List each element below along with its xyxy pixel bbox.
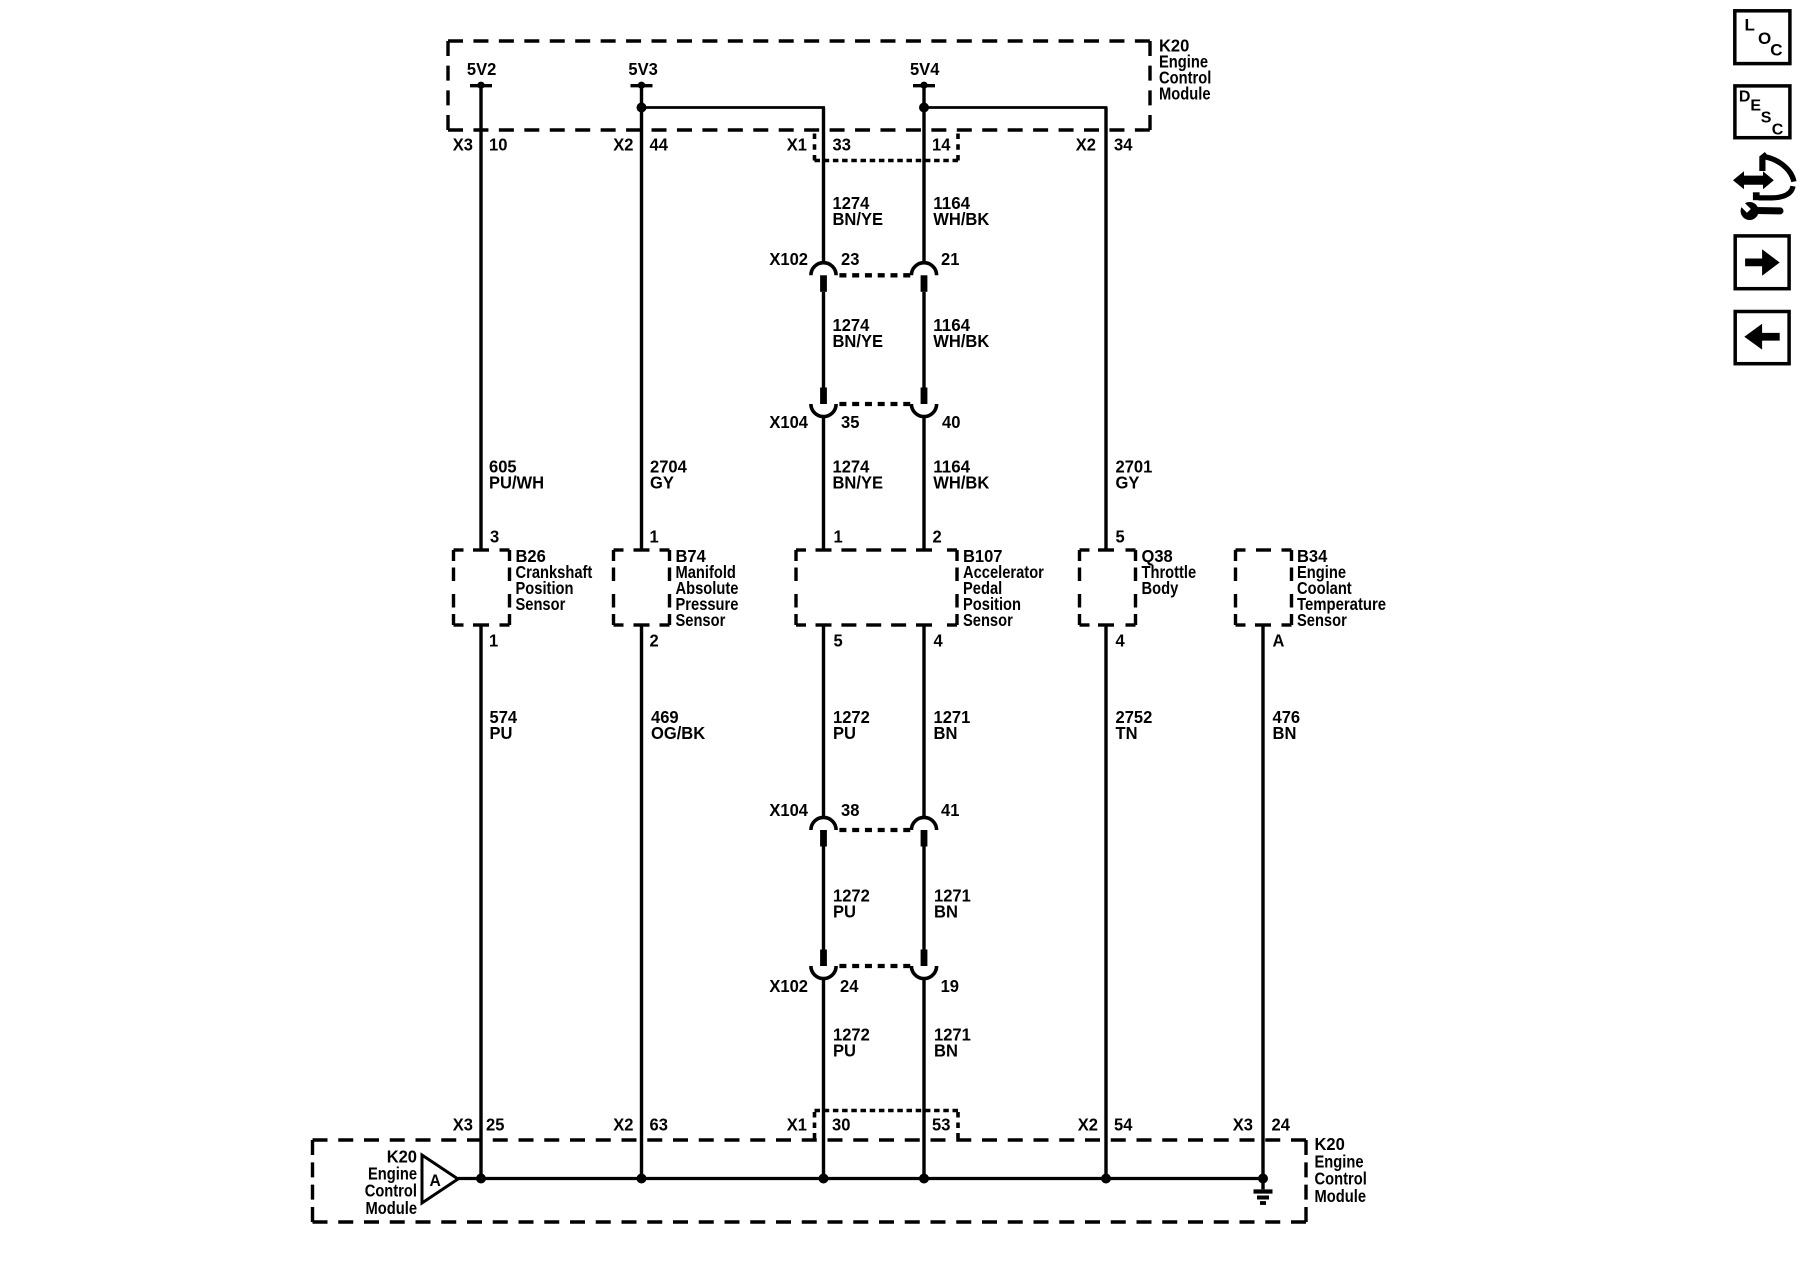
label: circuit 1164 WH/BK (upper) xyxy=(933,193,989,229)
svg-text:Sensor: Sensor xyxy=(676,610,726,630)
wire: circuit 1271 between connectors xyxy=(922,847,925,950)
icon button: LOC xyxy=(1735,11,1790,64)
svg-text:X1: X1 xyxy=(787,1115,808,1135)
svg-text:PU: PU xyxy=(833,1040,856,1060)
svg-text:5V3: 5V3 xyxy=(628,59,658,79)
wire: circuit 2752 TN from Q38 pin 4 to ECM X2-54 xyxy=(1104,625,1107,1179)
pin: Q38 pin 4 xyxy=(1116,631,1126,651)
svg-text:Sensor: Sensor xyxy=(516,594,566,614)
wire: circuit 574 PU from B26 pin 1 to ECM X3-25 xyxy=(479,625,482,1179)
wire: circuit 1164 to B107 pin 2 xyxy=(922,417,925,550)
svg-text:63: 63 xyxy=(650,1115,669,1135)
svg-text:BN/YE: BN/YE xyxy=(833,473,884,493)
svg-text:Sensor: Sensor xyxy=(963,610,1013,630)
junction: bus at X1-30 xyxy=(819,1174,829,1184)
connector X104 mating indication lower (dashed) xyxy=(839,828,910,832)
icon: vehicle with double arrow and wrench xyxy=(1733,154,1797,220)
wire: 5V3 branch to ECM pin X1-33 (circuit 1274) xyxy=(642,108,824,263)
ground bus wire inside ECM xyxy=(458,1177,1263,1180)
inline connector X102 pin 24 xyxy=(811,950,836,979)
svg-text:O: O xyxy=(1758,29,1771,48)
sensor B107 Accelerator Pedal Position Sensor (dashed box) xyxy=(796,550,957,625)
label: circuit 1272 PU (upper) xyxy=(833,707,870,743)
svg-text:54: 54 xyxy=(1114,1115,1133,1135)
pin: ECM X3-25 xyxy=(453,1115,505,1135)
svg-text:5: 5 xyxy=(1116,527,1126,547)
label: circuit 1164 WH/BK (between X102 and X104) xyxy=(933,315,989,351)
icon button: back (left arrow) xyxy=(1735,312,1789,364)
svg-text:PU: PU xyxy=(833,723,856,743)
label: circuit 1271 BN (upper) xyxy=(934,707,971,743)
pin: ECM X1-14 xyxy=(932,135,951,155)
label: circuit 1274 BN/YE (between X102 and X104) xyxy=(833,315,884,351)
svg-text:1: 1 xyxy=(834,527,844,547)
pin: ECM X2-34 xyxy=(1076,135,1133,155)
pin: ECM X1-30 xyxy=(787,1115,851,1135)
junction: bus at X3-24 xyxy=(1258,1174,1268,1184)
icon button: next (right arrow) xyxy=(1735,236,1789,289)
svg-text:WH/BK: WH/BK xyxy=(933,209,989,229)
svg-text:A: A xyxy=(1273,631,1285,651)
svg-text:X102: X102 xyxy=(769,249,808,269)
inline connector X102 pin 23 xyxy=(811,263,836,292)
svg-text:30: 30 xyxy=(832,1115,850,1135)
label: K20 Engine Control Module (right of bottom box) xyxy=(1315,1134,1367,1206)
label: B26 Crankshaft Position Sensor xyxy=(516,546,593,614)
label: connector X102 pins 24 / 19 (lower) xyxy=(769,976,959,996)
label: circuit 1271 BN (middle) xyxy=(934,886,971,922)
label: K20 Engine Control Module (top right of top box) xyxy=(1159,36,1211,104)
label: B74 Manifold Absolute Pressure Sensor xyxy=(676,546,739,630)
connector X102 mating indication lower (dashed) xyxy=(839,964,910,968)
wire: circuit 1274 to B107 pin 1 xyxy=(822,417,825,550)
label: circuit 476 BN xyxy=(1273,707,1301,743)
pin: B107 pin 5 xyxy=(834,631,844,651)
wire: circuit 1271 to ECM X1-53 xyxy=(922,979,925,1179)
label: K20 Engine Control Module (inside bottom box) xyxy=(365,1146,418,1218)
svg-text:38: 38 xyxy=(841,800,860,820)
wire: circuit 476 BN from B34 pin A to ECM X3-24 xyxy=(1261,625,1264,1179)
pin: B26 pin 3 xyxy=(490,527,500,547)
label: circuit 1272 PU (lower) xyxy=(833,1024,870,1060)
svg-text:3: 3 xyxy=(490,527,500,547)
junction: bus at X2-63 xyxy=(637,1174,647,1184)
svg-text:40: 40 xyxy=(942,412,960,432)
svg-text:C: C xyxy=(1770,41,1782,60)
svg-text:OG/BK: OG/BK xyxy=(651,723,706,743)
svg-text:5: 5 xyxy=(834,631,844,651)
svg-text:BN: BN xyxy=(934,902,958,922)
svg-text:BN: BN xyxy=(1273,723,1297,743)
wire: 5V4 from terminal down (circuit 1164 WH/BK) xyxy=(922,88,925,263)
svg-text:X1: X1 xyxy=(787,135,808,155)
inline connector X104 pin 35 xyxy=(811,388,836,417)
node 5V4: voltage reference terminal xyxy=(910,59,940,89)
wire: circuit 1164 between connectors xyxy=(922,292,925,388)
label: B107 Accelerator Pedal Position Sensor xyxy=(963,546,1044,630)
svg-text:Module: Module xyxy=(1315,1186,1367,1206)
sensor B34 Engine Coolant Temperature Sensor (dashed box) xyxy=(1236,550,1292,625)
svg-text:BN/YE: BN/YE xyxy=(833,209,884,229)
svg-text:GY: GY xyxy=(650,473,674,493)
svg-text:5V4: 5V4 xyxy=(910,59,940,79)
label: circuit 469 OG/BK xyxy=(651,707,706,743)
icon button: DESC xyxy=(1735,86,1790,139)
svg-text:35: 35 xyxy=(841,412,860,432)
svg-text:Module: Module xyxy=(366,1198,418,1218)
label: circuit 1272 PU (middle) xyxy=(833,886,870,922)
svg-text:WH/BK: WH/BK xyxy=(933,331,989,351)
svg-text:1: 1 xyxy=(489,631,499,651)
wire: circuit 1272 to ECM X1-30 xyxy=(822,979,825,1179)
svg-text:Body: Body xyxy=(1142,578,1179,598)
svg-text:21: 21 xyxy=(941,249,960,269)
svg-text:24: 24 xyxy=(840,976,859,996)
pin: ECM X2-54 xyxy=(1078,1115,1133,1135)
svg-text:33: 33 xyxy=(833,135,852,155)
svg-text:23: 23 xyxy=(841,249,860,269)
connector X102 mating indication (dashed) xyxy=(839,273,910,277)
svg-text:Sensor: Sensor xyxy=(1297,610,1347,630)
inline connector X104 pin 41 xyxy=(911,817,936,846)
svg-text:4: 4 xyxy=(1116,631,1126,651)
pin: B74 pin 1 xyxy=(650,527,660,547)
svg-text:10: 10 xyxy=(489,135,507,155)
node 5V3: voltage reference terminal xyxy=(628,59,658,89)
svg-text:L: L xyxy=(1745,16,1755,35)
wire: circuit 1274 between connectors xyxy=(822,292,825,388)
inline connector X104 pin 38 xyxy=(811,817,836,846)
svg-text:E: E xyxy=(1750,98,1761,115)
svg-text:TN: TN xyxy=(1116,723,1138,743)
label: circuit 1271 BN (lower) xyxy=(934,1024,971,1060)
svg-text:Module: Module xyxy=(1159,84,1211,104)
wire: 5V2 from terminal to B26 pin 3 (circuit 605 PU/WH) xyxy=(479,88,482,551)
pin: ECM X1-33 xyxy=(787,135,851,155)
svg-text:X2: X2 xyxy=(1078,1115,1098,1135)
label: circuit 1164 WH/BK (lower) xyxy=(933,457,989,493)
pin: B107 pin 4 xyxy=(934,631,944,651)
label: circuit 2704 GY xyxy=(650,457,687,493)
svg-text:34: 34 xyxy=(1114,135,1133,155)
wire: circuit 1272 between connectors xyxy=(822,847,825,950)
pin: B34 pin A xyxy=(1273,631,1285,651)
inline connector X104 pin 40 xyxy=(911,388,936,417)
svg-text:2: 2 xyxy=(933,527,942,547)
component Q38 Throttle Body (dashed box) xyxy=(1080,550,1136,625)
pin: ECM X2-44 xyxy=(613,135,668,155)
pin: B107 pin 2 xyxy=(933,527,942,547)
svg-text:BN: BN xyxy=(934,723,958,743)
svg-text:53: 53 xyxy=(932,1115,951,1135)
pin: Q38 pin 5 xyxy=(1116,527,1126,547)
label: circuit 1274 BN/YE (lower) xyxy=(833,457,884,493)
junction: 5V3 branch dot xyxy=(637,103,647,113)
svg-text:24: 24 xyxy=(1272,1115,1291,1135)
junction: 5V4 branch dot xyxy=(919,103,929,113)
pin: ECM X1-53 xyxy=(932,1115,951,1135)
svg-text:WH/BK: WH/BK xyxy=(933,473,989,493)
svg-text:S: S xyxy=(1761,110,1772,127)
svg-text:2: 2 xyxy=(650,631,659,651)
svg-text:X2: X2 xyxy=(613,1115,633,1135)
pin: B74 pin 2 xyxy=(650,631,659,651)
label: connector X104 pins 38 / 41 (lower) xyxy=(769,800,959,820)
svg-text:C: C xyxy=(1772,122,1784,139)
reference triangle A (signal reference) xyxy=(422,1155,458,1203)
connector outline: ECM X1 pins 30/53 (dotted) xyxy=(815,1111,959,1139)
label: circuit 1274 BN/YE (upper) xyxy=(833,193,884,229)
sensor B74 Manifold Absolute Pressure Sensor (dashed box) xyxy=(614,550,670,625)
svg-text:X104: X104 xyxy=(769,412,808,432)
svg-text:PU: PU xyxy=(833,902,856,922)
inline connector X102 pin 19 xyxy=(911,950,936,979)
svg-text:X104: X104 xyxy=(769,800,808,820)
ECM module outline: K20 Engine Control Module (top dashed box) xyxy=(448,41,1150,130)
connector X104 mating indication (dashed) xyxy=(839,402,910,406)
svg-text:GY: GY xyxy=(1116,473,1140,493)
pin: B107 pin 1 xyxy=(834,527,844,547)
wire: circuit 1271 BN from B107 pin 4 xyxy=(922,625,925,817)
sensor B26 Crankshaft Position Sensor (dashed box) xyxy=(454,550,510,625)
svg-text:X3: X3 xyxy=(453,1115,474,1135)
svg-text:D: D xyxy=(1739,89,1751,106)
svg-text:14: 14 xyxy=(932,135,951,155)
svg-text:X3: X3 xyxy=(453,135,474,155)
svg-text:25: 25 xyxy=(486,1115,505,1135)
svg-text:X3: X3 xyxy=(1233,1115,1254,1135)
junction: bus at X1-53 xyxy=(919,1174,929,1184)
svg-text:19: 19 xyxy=(941,976,960,996)
pin: ECM X2-63 xyxy=(613,1115,668,1135)
svg-text:4: 4 xyxy=(934,631,944,651)
label: circuit 2752 TN xyxy=(1116,707,1153,743)
inline connector X102 pin 21 xyxy=(911,263,936,292)
label: connector X102 pins 23 / 21 (upper) xyxy=(769,249,959,269)
label: circuit 2701 GY xyxy=(1116,457,1153,493)
svg-text:44: 44 xyxy=(650,135,669,155)
connector outline: ECM X1 pins 33/14 (dotted) xyxy=(815,134,959,161)
wire: 5V4 branch to ECM pin X2-34 / Q38 (circuit 2701 GY) xyxy=(924,108,1106,551)
svg-text:1: 1 xyxy=(650,527,660,547)
ECM module outline: K20 Engine Control Module (bottom dashed box) xyxy=(313,1140,1307,1222)
svg-text:PU/WH: PU/WH xyxy=(489,473,544,493)
label: circuit 605 PU/WH xyxy=(489,457,544,493)
wire: 5V3 from terminal to B74 pin 1 (circuit 2704 GY) xyxy=(640,88,643,551)
pin: B26 pin 1 xyxy=(489,631,499,651)
wire: circuit 1272 PU from B107 pin 5 xyxy=(822,625,825,817)
svg-text:X2: X2 xyxy=(1076,135,1096,155)
svg-text:BN/YE: BN/YE xyxy=(833,331,884,351)
label: connector X104 pins 35 / 40 (upper) xyxy=(769,412,960,432)
label: Q38 Throttle Body xyxy=(1142,546,1197,598)
svg-text:BN: BN xyxy=(934,1040,958,1060)
svg-text:X102: X102 xyxy=(769,976,808,996)
label: B34 Engine Coolant Temperature Sensor xyxy=(1297,546,1386,630)
svg-text:5V2: 5V2 xyxy=(467,59,496,79)
junction: bus at X2-54 xyxy=(1101,1174,1111,1184)
junction: bus at X3-25 xyxy=(476,1174,486,1184)
pin: ECM X3-24 xyxy=(1233,1115,1290,1135)
svg-text:A: A xyxy=(430,1172,441,1190)
pin: ECM X3-10 xyxy=(453,135,508,155)
wire: circuit 469 OG/BK from B74 pin 2 to ECM X2-63 xyxy=(640,625,643,1179)
svg-text:41: 41 xyxy=(941,800,960,820)
ground symbol inside ECM xyxy=(1254,1179,1273,1204)
svg-text:PU: PU xyxy=(490,723,513,743)
node 5V2: voltage reference terminal xyxy=(467,59,496,89)
svg-text:X2: X2 xyxy=(613,135,633,155)
label: circuit 574 PU xyxy=(490,707,518,743)
